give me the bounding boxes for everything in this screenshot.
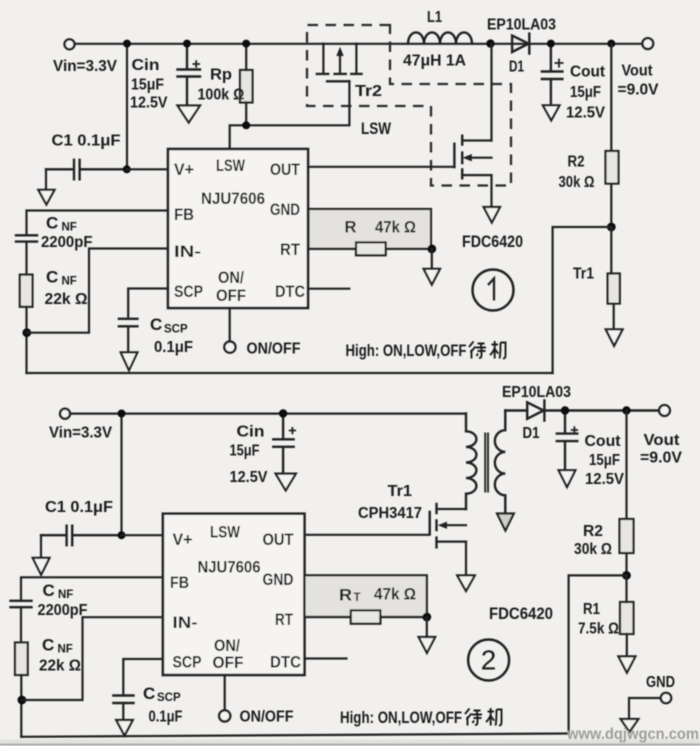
Tr2 gate plate xyxy=(327,80,349,82)
resistor RNF (2) xyxy=(15,643,28,676)
svg-text:30k Ω: 30k Ω xyxy=(559,174,595,191)
svg-text:15μF: 15μF xyxy=(131,77,164,94)
wire Vin1 drop to V+ xyxy=(126,44,128,169)
svg-text:IN-: IN- xyxy=(174,243,201,261)
svg-text:ON/: ON/ xyxy=(218,269,244,287)
op-amp U2 IC NJU7606 box (2) xyxy=(163,514,305,675)
node junction R2/R1 (2) xyxy=(622,571,631,580)
wire top rail circuit1 xyxy=(75,43,643,45)
ground Cout1 xyxy=(543,105,560,120)
inductor L1 xyxy=(408,32,472,43)
svg-text:R2: R2 xyxy=(583,523,603,540)
plus sign Cout1 xyxy=(555,59,564,68)
svg-text:V+: V+ xyxy=(173,531,193,549)
svg-text:RT: RT xyxy=(280,241,300,259)
NFET1 drain lead xyxy=(490,44,492,141)
svg-text:=9.0V: =9.0V xyxy=(640,450,682,467)
transistor N-MOSFET (FDC6420 low side, 1) xyxy=(454,44,491,207)
svg-text:7.5k Ω: 7.5k Ω xyxy=(578,621,619,638)
svg-text:EP10LA03: EP10LA03 xyxy=(487,17,556,34)
svg-text:GND: GND xyxy=(646,674,675,691)
wire bottom rail (1) xyxy=(27,372,553,374)
transformer Tr1 primary xyxy=(466,414,476,510)
resistor R2 (2) xyxy=(620,519,634,553)
wire ON/OFF stem (2) xyxy=(224,675,226,711)
svg-text:47k Ω: 47k Ω xyxy=(374,585,416,604)
node Vout2 terminal xyxy=(659,405,670,416)
ground R1 xyxy=(618,656,635,672)
node junction Vin2/C1 xyxy=(118,410,126,418)
wire feedback to bottom rail (2) xyxy=(569,575,627,733)
svg-text:GND: GND xyxy=(270,201,300,219)
ground RT (1) xyxy=(424,269,440,285)
wire DTC stub (1) xyxy=(308,288,349,290)
node junction Rp/LSW xyxy=(242,121,250,129)
resistor RNF (1) xyxy=(20,275,33,307)
capacitor Cin (2) xyxy=(273,414,293,474)
svg-text:D1: D1 xyxy=(509,59,524,76)
svg-text:www.dqjwgcn.com: www.dqjwgcn.com xyxy=(566,726,699,743)
NFET2 source stub xyxy=(437,540,466,542)
plus sign Cin2 xyxy=(289,427,296,434)
wire C1 ground stem (1) xyxy=(45,169,47,189)
resistor RT element (2) xyxy=(351,610,381,623)
svg-text:=9.0V: =9.0V xyxy=(618,82,659,99)
wire R2 branch (1) xyxy=(610,44,612,227)
svg-text:FDC6420: FDC6420 xyxy=(462,233,523,251)
node junction C1/V+ (2) xyxy=(118,531,126,539)
svg-text:47k Ω: 47k Ω xyxy=(375,218,416,237)
wire R2 branch (2) xyxy=(625,411,627,576)
svg-text:NJU7606: NJU7606 xyxy=(198,559,261,577)
svg-text:C: C xyxy=(150,315,162,334)
svg-text:C: C xyxy=(43,581,55,600)
wire IN- network (1) xyxy=(27,249,168,333)
capacitor C1 (2) xyxy=(41,526,122,546)
capacitor CSCP (1) xyxy=(119,319,137,327)
svg-text:C: C xyxy=(46,268,58,287)
svg-text:V+: V+ xyxy=(174,161,194,179)
svg-text:12.5V: 12.5V xyxy=(585,471,624,488)
wire OUT to NFET1 gate xyxy=(308,166,454,168)
svg-text:T: T xyxy=(354,592,361,604)
svg-text:12.5V: 12.5V xyxy=(230,469,268,486)
ground Cout2 xyxy=(559,470,576,487)
svg-text:ON/: ON/ xyxy=(214,637,240,655)
svg-text:NJU7606: NJU7606 xyxy=(201,190,265,208)
capacitor CNF (2) xyxy=(11,601,32,607)
svg-text:Rp: Rp xyxy=(210,67,232,84)
wire ON/OFF stem (1) xyxy=(229,308,231,342)
transistor Tr2 P-MOSFET xyxy=(317,44,382,100)
node junction Rp top xyxy=(242,40,250,48)
svg-text:OFF: OFF xyxy=(216,287,246,305)
wire C1 ground stem (2) xyxy=(40,535,42,557)
wire OUT to NFET2 gate xyxy=(305,534,430,536)
svg-text:2: 2 xyxy=(481,645,497,676)
svg-text:C: C xyxy=(46,214,58,233)
resistor Rp xyxy=(240,70,253,103)
ground Tr1 divider (1) xyxy=(606,329,623,346)
node Vin1 terminal xyxy=(65,39,75,49)
svg-text:22k Ω: 22k Ω xyxy=(45,291,88,308)
svg-text:IN-: IN- xyxy=(173,614,198,632)
node ON/OFF terminal (2) xyxy=(219,710,230,721)
op-amp U1 IC NJU7606 box (1) xyxy=(168,149,308,308)
svg-text:C: C xyxy=(42,636,54,655)
node junction FB/IN- (2) xyxy=(18,696,27,705)
svg-text:L1: L1 xyxy=(427,9,442,26)
node GND terminal xyxy=(661,693,671,703)
svg-text:C1 0.1μF: C1 0.1μF xyxy=(52,133,121,150)
svg-text:Vout: Vout xyxy=(644,432,681,449)
node junction RT (1) xyxy=(427,245,436,254)
capacitor CNF (1) xyxy=(16,235,37,241)
svg-text:ON/OFF: ON/OFF xyxy=(240,709,294,726)
wire RNF bottom to rail (2) xyxy=(20,675,22,737)
wire V+ pin (2) xyxy=(122,534,163,536)
svg-text:C1 0.1μF: C1 0.1μF xyxy=(45,499,113,516)
svg-text:High: ON,LOW,OFF: High: ON,LOW,OFF xyxy=(346,342,467,360)
svg-text:SCP: SCP xyxy=(157,692,181,704)
svg-text:R2: R2 xyxy=(568,154,585,171)
transistor N-MOSFET CPH FET (2) xyxy=(430,504,466,575)
svg-text:NF: NF xyxy=(58,644,73,656)
svg-text:GND: GND xyxy=(263,571,294,589)
svg-text:D1: D1 xyxy=(523,425,540,442)
node junction FB/IN- (1) xyxy=(22,328,31,337)
wire RT (2) xyxy=(305,616,427,618)
wire RT (1) xyxy=(308,248,432,250)
svg-text:Tr2: Tr2 xyxy=(355,83,382,100)
svg-text:30k Ω: 30k Ω xyxy=(574,541,612,558)
svg-text:LSW: LSW xyxy=(216,157,245,175)
NFET1 gate plate xyxy=(453,144,455,167)
transformer Tr1 secondary xyxy=(495,411,505,514)
svg-text:High: ON,LOW,OFF: High: ON,LOW,OFF xyxy=(340,709,462,727)
NFET2 bulk arrow xyxy=(443,524,466,526)
svg-text:NF: NF xyxy=(62,276,77,288)
FDC6420 package dashed outline (1) xyxy=(307,25,511,186)
wire RT ground stem (1) xyxy=(431,249,433,269)
svg-text:LSW: LSW xyxy=(210,524,240,542)
svg-text:Tr1: Tr1 xyxy=(573,266,594,283)
capacitor Cin (1) xyxy=(178,44,201,105)
ground Cin2 xyxy=(276,474,296,491)
diode D1 (2) xyxy=(505,401,659,421)
svg-text:OFF: OFF xyxy=(213,654,244,672)
ground C1 (1) xyxy=(38,190,54,205)
NFET1 bulk arrow xyxy=(468,157,492,159)
label CJK daiji (1) xyxy=(469,341,506,359)
node junction R2/Tr1 (1) xyxy=(607,223,616,232)
wire RT ground stem (2) xyxy=(426,617,428,637)
svg-text:15μF: 15μF xyxy=(589,452,620,469)
wire Tr1 resistor leads (1) xyxy=(611,227,613,329)
Tr2 drain lead xyxy=(355,44,357,74)
wire SCP (2) xyxy=(123,659,163,720)
bottom scan band xyxy=(0,740,700,746)
svg-text:RT: RT xyxy=(275,611,293,629)
svg-text:2200pF: 2200pF xyxy=(38,602,88,619)
wire IN- network (2) xyxy=(22,617,163,700)
wire SCP (1) xyxy=(128,289,168,353)
number node 1 circled xyxy=(473,270,514,311)
node junction Cin1 xyxy=(183,40,191,48)
wire Vin2 drop to V+ xyxy=(120,414,122,536)
ground C1 (2) xyxy=(33,558,50,575)
svg-text:R: R xyxy=(345,218,357,237)
node junction Cout2 xyxy=(561,406,569,414)
wire Rp leads xyxy=(245,44,247,126)
NFET1 source lead xyxy=(490,175,492,206)
resistor RT element (1) xyxy=(356,242,386,255)
ground CSCP (1) xyxy=(121,352,138,370)
ground RT (2) xyxy=(419,637,436,653)
NFET2 channel segments xyxy=(435,504,437,547)
svg-text:SCP: SCP xyxy=(164,324,188,336)
wire RNF bottom to rail (1) xyxy=(25,307,27,373)
node junction C1/V+ xyxy=(123,165,131,173)
svg-text:47μH 1A: 47μH 1A xyxy=(403,53,466,70)
svg-text:DTC: DTC xyxy=(270,654,301,672)
node junction Cin2 xyxy=(279,409,287,417)
capacitor Cout (1) xyxy=(542,44,563,105)
wire FB network (1) xyxy=(27,211,169,275)
Tr2 channel segments xyxy=(317,73,362,75)
node ON/OFF terminal (1) xyxy=(224,342,235,353)
svg-text:Vout: Vout xyxy=(622,62,654,79)
svg-text:EP10LA03: EP10LA03 xyxy=(502,384,571,401)
Tr2 bulk arrow xyxy=(339,53,341,74)
wire LSW gate trace xyxy=(230,81,350,149)
wire DTC stub (2) xyxy=(305,657,347,659)
svg-text:NF: NF xyxy=(58,589,73,601)
node Vout1 terminal xyxy=(642,38,653,49)
plus sign Cin1 xyxy=(193,60,201,68)
resistor R1 xyxy=(620,602,634,634)
svg-text:FB: FB xyxy=(174,206,194,224)
svg-text:SCP: SCP xyxy=(174,283,203,301)
node Vin2 terminal xyxy=(60,409,70,419)
svg-text:FB: FB xyxy=(170,574,189,592)
resistor box RT 47k (2) xyxy=(305,575,427,617)
NFET1 channel segments xyxy=(461,136,463,179)
capacitor C1 (1) xyxy=(46,160,127,180)
svg-text:Cin: Cin xyxy=(237,424,265,441)
svg-text:R: R xyxy=(339,586,352,605)
node junction R2 top (1) xyxy=(607,40,615,48)
wire R1 leads xyxy=(625,575,627,656)
svg-text:Vin=3.3V: Vin=3.3V xyxy=(49,425,112,442)
node junction RT (2) xyxy=(422,613,431,622)
wire bottom rail (2) xyxy=(21,734,568,737)
svg-text:SCP: SCP xyxy=(173,654,202,672)
svg-text:NF: NF xyxy=(62,222,77,234)
plus sign Cout2 xyxy=(571,426,578,433)
wire V+ pin (1) xyxy=(127,168,168,170)
NFET1 source stub xyxy=(462,174,491,176)
svg-text:Vin=3.3V: Vin=3.3V xyxy=(53,58,117,75)
svg-text:Cout: Cout xyxy=(570,64,606,81)
svg-text:R1: R1 xyxy=(583,601,600,618)
svg-text:OUT: OUT xyxy=(270,161,300,179)
wire FB network (2) xyxy=(21,577,163,642)
capacitor CSCP (2) xyxy=(113,696,133,704)
NFET2 drain stub xyxy=(437,508,466,510)
NFET2 gate plate xyxy=(429,512,431,534)
NFET1 drain stub xyxy=(462,139,491,141)
resistor box R 47k (1) xyxy=(309,209,432,249)
svg-text:OUT: OUT xyxy=(263,531,294,549)
svg-text:2200pF: 2200pF xyxy=(41,234,93,251)
svg-text:100k Ω: 100k Ω xyxy=(198,87,245,104)
ground Cin1 xyxy=(178,106,201,123)
ground GND terminal xyxy=(621,719,639,732)
svg-text:DTC: DTC xyxy=(275,283,305,301)
svg-text:12.5V: 12.5V xyxy=(566,105,605,122)
node junction L1/D1/drain xyxy=(486,39,494,47)
ground NFET1 xyxy=(484,207,500,223)
node junction Cout1 xyxy=(547,40,555,48)
node junction R2 top (2) xyxy=(622,406,630,414)
ground NFET2 xyxy=(457,575,475,591)
wire GND to ground xyxy=(629,698,661,719)
svg-text:15μF: 15μF xyxy=(230,443,260,460)
svg-text:Cout: Cout xyxy=(585,433,622,450)
svg-text:Cin: Cin xyxy=(132,57,160,74)
svg-text:12.5V: 12.5V xyxy=(130,95,168,112)
diode D1 (1) xyxy=(512,34,529,54)
svg-text:CPH3417: CPH3417 xyxy=(358,505,422,522)
svg-text:ON/OFF: ON/OFF xyxy=(247,341,301,358)
label CJK daiji (2) xyxy=(465,708,502,726)
resistor Tr1 divider (1) xyxy=(608,274,620,304)
capacitor Cout (2) xyxy=(557,411,578,470)
svg-text:15μF: 15μF xyxy=(570,84,601,101)
resistor R2 (1) xyxy=(606,151,619,184)
node junction Vin1/C1 xyxy=(123,40,131,48)
svg-text:FDC6420: FDC6420 xyxy=(489,605,553,623)
wire top rail circuit2 xyxy=(70,413,466,415)
wire feedback to bottom rail (1) xyxy=(553,227,612,373)
svg-text:LSW: LSW xyxy=(361,119,392,138)
svg-text:0.1μF: 0.1μF xyxy=(154,339,193,356)
svg-text:22k Ω: 22k Ω xyxy=(39,658,81,675)
number node 2 circled xyxy=(468,640,509,681)
svg-text:0.1μF: 0.1μF xyxy=(149,709,183,726)
ground secondary (2) xyxy=(497,514,514,531)
svg-text:C: C xyxy=(143,684,155,703)
transformer core xyxy=(485,433,488,493)
svg-text:Tr1: Tr1 xyxy=(388,483,413,500)
NFET2 source lead xyxy=(465,542,467,575)
Tr2 source lead xyxy=(322,44,324,74)
ground CSCP (2) xyxy=(116,720,133,736)
